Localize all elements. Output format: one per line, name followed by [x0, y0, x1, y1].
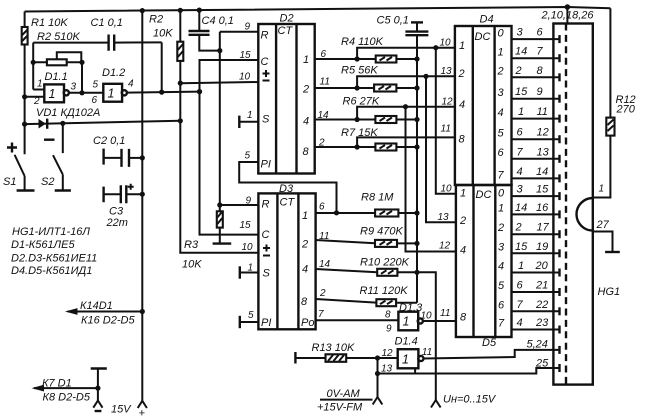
wire HG1 row6 pin 6-12: [512, 127, 560, 144]
wire HG1 row13 pin 1-20: [512, 260, 560, 277]
wire +15V vertical rail: [141, 11, 143, 401]
wire C1 to D1.1 input: [32, 43, 34, 90]
svg-text:R2 510K: R2 510K: [37, 31, 80, 43]
svg-text:15: 15: [515, 86, 528, 98]
svg-text:27: 27: [596, 219, 610, 231]
svg-text:8: 8: [537, 65, 544, 77]
svg-text:10: 10: [440, 38, 452, 49]
svg-text:К14D1: К14D1: [80, 300, 113, 312]
resistor R9: [316, 226, 417, 247]
svg-text:2: 2: [302, 84, 309, 96]
svg-text:2: 2: [319, 288, 326, 299]
svg-text:D2: D2: [280, 13, 294, 25]
IC D2: [258, 13, 314, 174]
svg-text:1: 1: [518, 260, 524, 272]
svg-text:11: 11: [537, 106, 548, 118]
svg-text:10K: 10K: [182, 259, 202, 271]
svg-text:4: 4: [517, 317, 523, 329]
svg-text:15: 15: [240, 50, 252, 61]
svg-text:3: 3: [71, 82, 77, 93]
svg-text:1: 1: [459, 40, 465, 52]
svg-text:7: 7: [318, 309, 324, 320]
svg-text:R9 470K: R9 470K: [360, 226, 403, 238]
svg-text:19: 19: [536, 241, 548, 253]
svg-text:21: 21: [535, 280, 548, 292]
svg-text:4: 4: [459, 99, 465, 111]
svg-text:0: 0: [498, 28, 505, 40]
svg-text:S2: S2: [41, 176, 54, 188]
node K7/K8 bus arrow: [32, 378, 98, 404]
pin labels D3 left: [240, 196, 255, 322]
svg-text:1: 1: [247, 110, 253, 121]
svg-text:9: 9: [245, 22, 251, 33]
svg-text:НG1-ИЛТ1-16Л: НG1-ИЛТ1-16Л: [12, 226, 90, 238]
diode VD1: [22, 107, 183, 129]
svg-text:S: S: [263, 268, 271, 280]
wire HG1 row4 pin 15-9: [512, 86, 560, 103]
svg-text:2: 2: [459, 215, 466, 227]
svg-text:R: R: [262, 199, 270, 211]
resistor R12: [593, 8, 636, 197]
svg-text:4: 4: [498, 261, 504, 273]
wire HG1 row16 pin 4-23: [512, 317, 560, 334]
node top rail junctions: [140, 4, 571, 13]
svg-text:D4: D4: [480, 14, 494, 26]
svg-text:2: 2: [497, 222, 504, 234]
wire D1.1 pin1: [33, 89, 44, 91]
svg-text:7: 7: [498, 170, 505, 182]
svg-text:16: 16: [536, 202, 549, 214]
svg-text:VD1 КД102А: VD1 КД102А: [36, 107, 100, 119]
svg-text:1: 1: [302, 210, 308, 222]
wire D2 PI carry from D3: [239, 162, 339, 215]
wire D4 input3 row: [357, 104, 455, 119]
svg-text:D1.1: D1.1: [45, 71, 68, 83]
resistor R5: [315, 65, 420, 92]
svg-text:C5 0,1: C5 0,1: [377, 15, 409, 27]
svg-text:15: 15: [515, 241, 528, 253]
resistor R10: [316, 257, 417, 276]
power Uout terminal fork: [431, 394, 497, 408]
svg-text:8: 8: [303, 146, 310, 158]
svg-text:PI: PI: [261, 317, 271, 329]
capacitor C5: [377, 15, 429, 36]
wire HG1 row1 pin 3-6: [512, 27, 560, 44]
svg-text:D5: D5: [482, 337, 497, 349]
resistor R11: [316, 285, 417, 306]
svg-text:2: 2: [515, 65, 522, 77]
svg-text:2: 2: [497, 66, 504, 78]
svg-text:4: 4: [517, 166, 523, 178]
parts list text: [11, 226, 97, 277]
svg-text:R: R: [261, 30, 269, 42]
svg-text:D2.D3-К561ИЕ11: D2.D3-К561ИЕ11: [11, 253, 97, 265]
wire D1.2 output to clock rail: [127, 42, 203, 94]
svg-text:R1 10K: R1 10K: [31, 17, 68, 29]
wire HG1 row8 pin 4-14: [512, 166, 560, 183]
wire D1.3 output to D5 pin11: [423, 320, 456, 322]
svg-text:7: 7: [537, 46, 544, 58]
power 0V-AM terminal fork: [317, 388, 382, 414]
svg-text:9: 9: [537, 86, 543, 98]
wire Uout branch: [417, 272, 436, 400]
svg-text:4: 4: [498, 107, 504, 119]
resistor R8: [316, 192, 417, 217]
svg-text:R3: R3: [184, 239, 199, 251]
svg-text:13: 13: [441, 66, 453, 77]
svg-text:1: 1: [498, 47, 504, 59]
IC D5: [456, 185, 512, 349]
svg-text:9: 9: [246, 196, 252, 207]
svg-text:CT: CT: [280, 197, 296, 209]
wire HG1 row12 pin 15-19: [512, 241, 560, 257]
svg-text:R4 110K: R4 110K: [341, 36, 384, 48]
svg-text:5: 5: [248, 310, 254, 321]
resistor R2 510K: [31, 31, 85, 65]
svg-text:1: 1: [49, 87, 56, 101]
wire HG1 row9 pin 3-15: [512, 184, 560, 201]
node K14/K16 bus arrow: [65, 300, 145, 327]
wire HG1 row14 pin 6-21: [512, 280, 560, 297]
svg-text:R8 1M: R8 1M: [361, 192, 394, 204]
svg-text:7: 7: [517, 146, 524, 158]
svg-text:C: C: [262, 229, 270, 241]
IC D4: [455, 14, 512, 186]
svg-text:25: 25: [535, 358, 549, 370]
capacitor C2: [93, 135, 145, 167]
svg-text:6: 6: [498, 147, 505, 159]
svg-text:15V: 15V: [111, 404, 132, 416]
svg-text:2: 2: [301, 239, 308, 251]
svg-text:8: 8: [301, 296, 308, 308]
label D4 outputs 0-7: [497, 28, 505, 182]
svg-text:+: +: [139, 408, 146, 419]
wire D1.1 pin2: [22, 94, 44, 99]
svg-text:6: 6: [92, 95, 98, 106]
op-amp D1.3 gate: [385, 302, 432, 335]
svg-text:DC: DC: [476, 189, 492, 201]
wire D4 input4 row: [357, 137, 455, 147]
svg-text:11: 11: [441, 124, 451, 135]
capacitor C4: [189, 10, 234, 53]
svg-text:1: 1: [518, 106, 524, 118]
resistor R4: [315, 36, 420, 63]
svg-text:12: 12: [442, 97, 454, 108]
svg-text:D1.2: D1.2: [102, 67, 125, 79]
pin labels D5 inputs: [438, 184, 453, 320]
svg-text:D1-К561ЛЕ5: D1-К561ЛЕ5: [11, 239, 75, 251]
pin labels D2 left: [239, 22, 253, 162]
wire clock rail: [197, 60, 259, 235]
svg-text:13: 13: [537, 146, 550, 158]
wire HG1 pins 2,10,18,26: [541, 7, 595, 24]
svg-text:PI: PI: [261, 159, 271, 171]
svg-text:4: 4: [303, 116, 309, 128]
svg-text:270: 270: [616, 104, 636, 116]
IC D3: [258, 183, 315, 329]
wire D4 input2 row: [357, 74, 455, 88]
wire HG1 row10 pin 14-16: [512, 202, 560, 219]
svg-text:15: 15: [536, 184, 549, 196]
svg-text:10: 10: [239, 72, 251, 83]
svg-text:R2: R2: [149, 14, 163, 26]
svg-text:6: 6: [517, 280, 524, 292]
capacitor C1: [33, 17, 162, 51]
power +15V terminal fork: [111, 401, 147, 419]
ground R3: [213, 242, 232, 244]
svg-text:6: 6: [498, 300, 505, 312]
wire D4 input1 row: [357, 45, 455, 59]
wire D5 input1 feed: [436, 48, 456, 194]
svg-text:R10 220K: R10 220K: [360, 257, 410, 269]
svg-text:7: 7: [517, 299, 524, 311]
svg-text:3: 3: [498, 87, 505, 99]
switch S2: [41, 123, 71, 190]
svg-text:C4 0,1: C4 0,1: [202, 15, 234, 27]
svg-text:4: 4: [302, 264, 308, 276]
wire HG1 row3 pin 2-8: [512, 65, 560, 82]
svg-text:R13 10K: R13 10K: [312, 342, 355, 354]
svg-text:22: 22: [535, 299, 548, 311]
wire HG1 row7 pin 7-13: [512, 146, 560, 163]
wire D5 input2 feed: [426, 76, 456, 222]
svg-text:1: 1: [108, 87, 115, 101]
power -15V terminal: [91, 369, 107, 412]
svg-text:14: 14: [536, 166, 548, 178]
svg-text:11: 11: [422, 347, 432, 358]
svg-text:C: C: [261, 56, 269, 68]
wire summing rail: [414, 35, 419, 303]
svg-text:14: 14: [515, 202, 527, 214]
svg-text:5: 5: [498, 128, 505, 140]
resistor R13: [295, 342, 397, 364]
svg-text:DC: DC: [475, 31, 491, 43]
capacitor C3: [104, 184, 145, 229]
svg-text:6: 6: [517, 127, 524, 139]
svg-text:5: 5: [498, 280, 505, 292]
svg-text:Po: Po: [301, 317, 314, 329]
svg-text:C1 0,1: C1 0,1: [91, 17, 123, 29]
svg-text:Uн=0..15V: Uн=0..15V: [443, 394, 497, 406]
svg-text:4: 4: [460, 245, 466, 257]
svg-text:8: 8: [385, 310, 391, 321]
wire D3 PI stub: [240, 316, 259, 328]
wire D1.1 output: [69, 62, 104, 95]
svg-text:1: 1: [402, 353, 409, 367]
svg-text:К16 D2-D5: К16 D2-D5: [81, 315, 135, 327]
op-amp D1.4 gate: [381, 336, 432, 375]
svg-text:0V-AM: 0V-AM: [327, 388, 361, 400]
svg-text:6: 6: [537, 27, 544, 39]
display HG1 box: [553, 24, 620, 385]
svg-text:15: 15: [240, 220, 252, 231]
svg-text:5: 5: [93, 80, 99, 91]
svg-text:1: 1: [599, 184, 605, 195]
svg-text:К7 D1: К7 D1: [42, 378, 72, 390]
svg-text:0: 0: [498, 188, 505, 200]
svg-text:C3: C3: [109, 206, 124, 218]
svg-text:10: 10: [421, 311, 433, 322]
wire D3 S stub: [240, 266, 259, 278]
resistor R3: [182, 211, 223, 270]
svg-text:17: 17: [537, 222, 550, 234]
svg-text:4: 4: [128, 79, 134, 90]
svg-text:CT: CT: [278, 25, 294, 37]
resistor R7: [315, 127, 420, 151]
wire D2 plus-minus row: [180, 82, 258, 83]
svg-text:12: 12: [382, 348, 394, 359]
svg-text:10K: 10K: [153, 28, 173, 40]
svg-text:14: 14: [515, 46, 527, 58]
svg-text:2: 2: [458, 68, 465, 80]
wire HG1 row2 pin 14-7: [512, 46, 560, 63]
resistor R1: [22, 12, 69, 125]
svg-text:3: 3: [517, 184, 524, 196]
svg-text:C2 0,1: C2 0,1: [93, 135, 125, 147]
op-amp D1.1 gate: [33, 71, 77, 107]
svg-text:8: 8: [460, 312, 467, 324]
svg-text:R5 56K: R5 56K: [341, 65, 378, 77]
svg-text:D4.D5-К561ИД1: D4.D5-К561ИД1: [11, 265, 92, 277]
svg-text:20: 20: [535, 260, 549, 272]
svg-text:HG1: HG1: [598, 286, 621, 298]
pin labels D3 right: [318, 202, 331, 321]
wire HG1 row 25: [378, 358, 560, 374]
svg-text:1: 1: [303, 54, 309, 66]
svg-text:3: 3: [517, 27, 524, 39]
wire +15V top rail: [25, 7, 611, 12]
wire D5 input3 feed: [406, 107, 456, 252]
svg-text:11: 11: [320, 77, 330, 88]
svg-text:22m: 22m: [106, 217, 128, 229]
svg-text:R11 120K: R11 120K: [360, 285, 409, 297]
wire D2 S stub: [239, 116, 258, 128]
svg-text:D1.4: D1.4: [395, 336, 418, 348]
svg-text:6: 6: [319, 202, 325, 213]
svg-text:12: 12: [537, 127, 549, 139]
svg-text:10: 10: [242, 242, 254, 253]
svg-text:11: 11: [440, 308, 450, 319]
pin labels D4 inputs: [440, 38, 454, 135]
svg-text:5: 5: [245, 151, 251, 162]
svg-text:1: 1: [460, 188, 466, 200]
switch S1: [3, 124, 35, 190]
resistor R2 10K (rail): [149, 10, 258, 252]
svg-text:9: 9: [386, 324, 392, 335]
svg-text:12: 12: [439, 241, 451, 252]
pin labels D2 right: [318, 49, 330, 149]
ground HG1 pin27: [593, 232, 620, 253]
svg-text:S: S: [262, 114, 270, 126]
svg-text:2: 2: [515, 222, 522, 234]
wire D3 Po row to D1.3: [316, 319, 399, 321]
svg-text:8: 8: [459, 134, 466, 146]
svg-text:1: 1: [37, 79, 43, 90]
svg-text:+15V-FM: +15V-FM: [317, 402, 363, 414]
svg-text:1: 1: [403, 315, 410, 329]
wire D1.4 pin13 loop: [375, 358, 415, 397]
wire reset rail: [217, 32, 258, 212]
svg-text:23: 23: [535, 317, 549, 329]
label D5 outputs 0-7: [497, 188, 505, 330]
svg-text:7: 7: [498, 318, 505, 330]
wire HG1 row15 pin 7-22: [512, 299, 560, 316]
svg-text:5,24: 5,24: [527, 339, 548, 351]
svg-text:S1: S1: [3, 176, 16, 188]
resistor R6: [315, 96, 420, 124]
wire HG1 row11 pin 2-17: [512, 222, 560, 239]
display HG1 filament arc: [577, 198, 610, 231]
wire HG1 row5 pin 1-11: [512, 106, 560, 123]
op-amp D1.2 gate: [92, 67, 135, 106]
svg-text:10: 10: [441, 184, 453, 195]
svg-text:3: 3: [498, 242, 505, 254]
wire HG1 grid row 5,24: [423, 339, 559, 359]
svg-text:К8 D2-D5: К8 D2-D5: [43, 392, 91, 404]
svg-text:13: 13: [438, 212, 450, 223]
svg-text:1: 1: [498, 203, 504, 215]
